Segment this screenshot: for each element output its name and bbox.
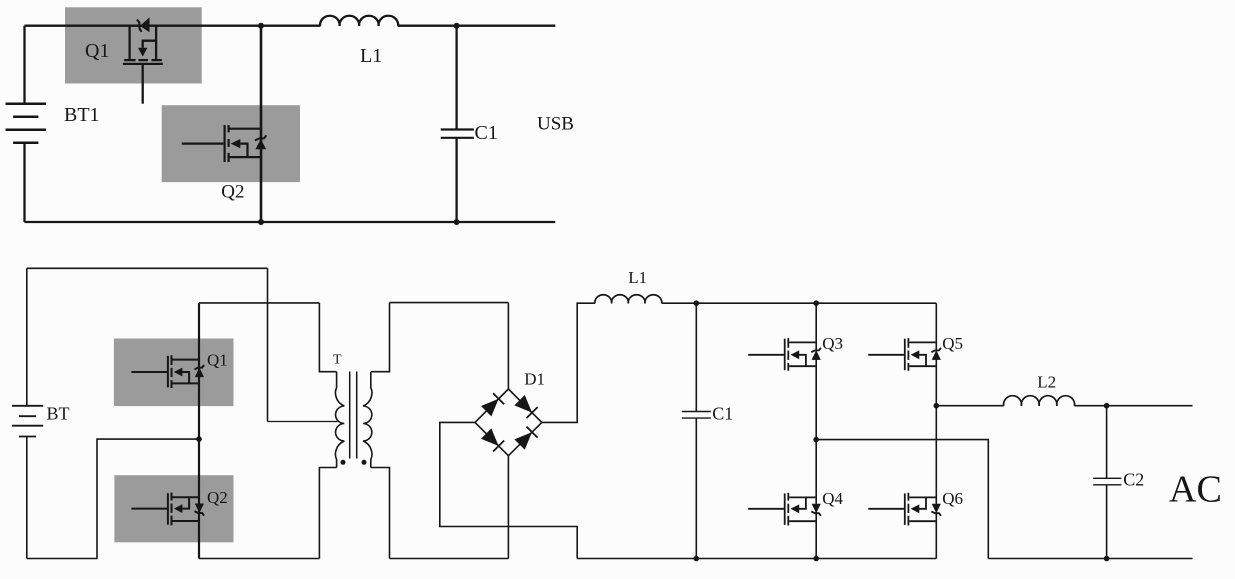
wire bridge top vertical — [507, 303, 509, 389]
svg-text:Q1: Q1 — [85, 40, 109, 62]
gray box Q2 (top) — [162, 105, 300, 182]
node dot battery/Q1Q2 junction — [196, 436, 202, 442]
wire top rail right of L1 — [398, 25, 556, 27]
node dot bottom/C1 — [694, 556, 700, 562]
svg-text:C1: C1 — [712, 404, 733, 424]
svg-text:Q2: Q2 — [221, 182, 244, 203]
wire primary-top step — [319, 303, 336, 372]
wire C2 vertical below — [1106, 485, 1108, 559]
wire left vertical above battery — [23, 26, 25, 104]
transistor Q5 — [868, 338, 941, 371]
gray box Q1 (bottom) — [114, 339, 234, 407]
node dot bottom rail / C1 — [454, 219, 460, 225]
bridge diode top-right — [514, 395, 537, 418]
wire center-tap vertical — [267, 268, 269, 421]
wire C1 vertical below — [695, 418, 697, 558]
svg-text:Q5: Q5 — [942, 334, 963, 353]
svg-text:L1: L1 — [360, 45, 382, 67]
svg-text:D1: D1 — [524, 370, 545, 389]
wire L2 branch — [936, 405, 1003, 407]
wire secondary-top step — [371, 303, 390, 372]
wire bridge right stub to L1 — [542, 303, 595, 422]
wire mid rail and drop — [816, 440, 988, 559]
svg-text:C1: C1 — [475, 122, 498, 144]
battery BT — [12, 406, 43, 437]
transformer T secondary winding — [363, 372, 372, 468]
node dot Q5Q6/L2 — [934, 403, 940, 409]
wire top-left rail — [27, 267, 268, 269]
wire bridge bottom vertical — [507, 456, 509, 559]
svg-text:L1: L1 — [628, 268, 647, 287]
svg-text:Q3: Q3 — [822, 334, 843, 353]
inductor L1 (top) — [320, 16, 398, 26]
wire top rail left of L1 — [25, 25, 321, 27]
inductor L1 (bottom) — [595, 295, 662, 304]
svg-text:L2: L2 — [1037, 372, 1056, 391]
wire left vertical below battery — [23, 143, 25, 222]
wire secondary-bottom step — [371, 468, 390, 559]
transistor Q1 (top, rotated MOSFET) — [123, 17, 163, 103]
diode bridge D1 diamond — [475, 389, 542, 456]
svg-text:C2: C2 — [1123, 470, 1144, 490]
node dot rail/Q3 — [813, 300, 819, 306]
wire secondary to bridge — [390, 302, 509, 304]
wire L2 to AC — [1075, 405, 1193, 407]
node dot mid rail/Q3Q4 — [813, 437, 819, 443]
node dot bottom rail / Q2 — [258, 219, 264, 225]
capacitor C1 (bottom) — [682, 412, 711, 419]
wire bottom rail segment 5 — [988, 558, 1192, 560]
wire bottom rail segment 2 — [199, 558, 319, 560]
wire bottom rail segment 1 — [27, 439, 199, 558]
wire bottom rail segment 3 — [390, 558, 509, 560]
bridge diode top-left — [481, 393, 504, 416]
wire battery top vertical — [26, 268, 28, 406]
inductor L2 — [1004, 396, 1075, 406]
wire battery bottom vertical — [26, 437, 28, 559]
transistor Q2 (top) — [182, 125, 267, 162]
node dot L2/C2 — [1104, 403, 1110, 409]
node dot top rail / C1 — [454, 23, 460, 29]
capacitor C2 — [1093, 478, 1121, 485]
wire Q3/Q4 column — [815, 303, 817, 558]
wire center-tap horizontal — [268, 421, 338, 423]
svg-text:BT1: BT1 — [64, 104, 100, 126]
gray box Q2 (bottom) — [114, 475, 233, 542]
wire bridge left stub and step — [440, 422, 577, 558]
wire C1 vertical above — [455, 26, 457, 130]
battery BT1 — [6, 104, 47, 143]
node dot bottom/C2 — [1104, 556, 1110, 562]
node dot rail/C1 — [694, 300, 700, 306]
svg-text:Q6: Q6 — [942, 489, 963, 508]
wire C1 vertical below — [455, 138, 457, 222]
bridge diode bottom-right — [514, 427, 537, 450]
gray box Q1 (top) — [65, 7, 202, 83]
wire Q5/Q6 column — [935, 303, 937, 558]
wire C2 vertical above — [1106, 406, 1108, 479]
node dot bottom/Q4 — [813, 556, 819, 562]
svg-text:AC: AC — [1169, 469, 1222, 511]
svg-text:USB: USB — [537, 114, 574, 135]
transistor Q1 (bottom) — [131, 355, 204, 388]
transformer phase dot primary — [341, 460, 346, 465]
transistor Q2 (bottom, mirrored) — [131, 493, 204, 526]
wire H-bridge top rail — [662, 302, 937, 304]
node dot top rail / Q2 — [258, 23, 264, 29]
svg-text:Q1: Q1 — [207, 350, 228, 369]
transformer T core — [350, 372, 357, 459]
wire bottom rail segment 4 — [577, 558, 936, 560]
transistor Q3 — [748, 338, 821, 371]
svg-text:BT: BT — [47, 404, 70, 424]
transformer T primary winding — [335, 372, 344, 468]
svg-text:T: T — [333, 353, 342, 368]
transformer phase dot secondary — [362, 460, 367, 465]
capacitor C1 (top) — [441, 130, 474, 138]
bridge diode bottom-left — [481, 428, 504, 451]
transistor Q4 (mirrored) — [748, 493, 821, 526]
svg-text:Q4: Q4 — [822, 489, 843, 508]
transistor Q6 (mirrored) — [868, 493, 941, 526]
wire Q1/Q2 column — [198, 303, 200, 559]
wire primary-bottom step — [319, 468, 336, 559]
wire Q2 vertical — [260, 26, 263, 222]
svg-text:Q2: Q2 — [207, 488, 228, 507]
wire B horizontal (Q1 drain to primary top) — [199, 302, 319, 304]
wire C1 vertical above — [695, 303, 697, 411]
wire bottom rail — [25, 221, 556, 223]
